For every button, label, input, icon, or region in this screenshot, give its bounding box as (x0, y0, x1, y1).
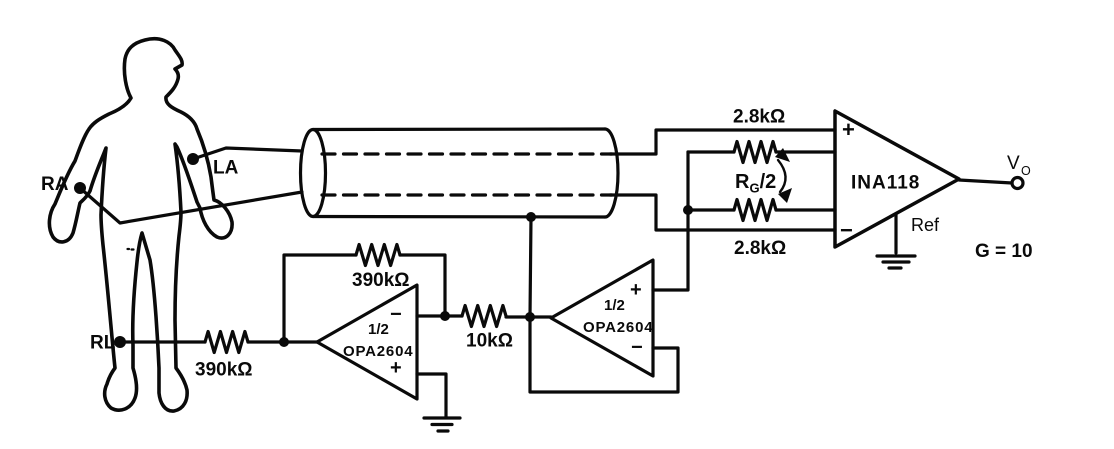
wire 390k to op-amp U1 output node (248, 340, 317, 343)
svg-text:390kΩ: 390kΩ (195, 360, 253, 381)
wire top conductor exit (610, 130, 835, 154)
svg-text:V: V (1007, 153, 1020, 174)
wire INA118 Ref pin to ground (894, 214, 897, 253)
wire 10k right lead to U2 output (506, 315, 551, 318)
wire bottom conductor exit (610, 195, 835, 230)
electrode dot LA (187, 153, 199, 165)
resistor 390k feedback (356, 245, 400, 266)
navel mark (128, 248, 134, 251)
output terminal Vo (1012, 178, 1023, 189)
wire feedback right vertical to U1 inverting input (400, 255, 445, 316)
wire INA118 output (959, 180, 1012, 183)
svg-text:G = 10: G = 10 (975, 241, 1033, 262)
resistor RG/2 upper (734, 142, 776, 163)
wire U1 non-inverting input to ground (417, 374, 446, 417)
resistor 10k (462, 306, 506, 327)
wire RG lower leads (688, 208, 734, 211)
op-amp U1 (1/2 OPA2604, right-leg drive, points left) (317, 285, 417, 399)
svg-text:+: + (390, 357, 402, 379)
wire RL to 390k resistor (120, 340, 205, 343)
svg-text:−: − (390, 304, 402, 326)
svg-text:OPA2604: OPA2604 (343, 343, 413, 360)
svg-text:2.8kΩ: 2.8kΩ (733, 107, 785, 128)
junction node U1 inverting input (440, 311, 450, 321)
junction node U2 output (525, 312, 535, 322)
cable inner conductor bottom (dashed) (322, 193, 612, 196)
junction node U1 output (279, 337, 289, 347)
wire RA electrode to cable (80, 188, 302, 223)
wire 10k left lead (445, 314, 462, 317)
svg-text:+: + (842, 117, 855, 142)
resistor 390k (right-leg drive series) (205, 332, 248, 353)
junction node cable shield (526, 212, 536, 222)
svg-text:RA: RA (41, 174, 69, 195)
wire U2 non-inverting input up to RG midpoint (653, 152, 688, 290)
arrowhead bottom of RG adjust arrow (778, 188, 792, 203)
arrowhead top of RG adjust arrow (775, 148, 790, 162)
wire U2 inverting input feedback loop (530, 317, 678, 392)
adjustable arrow across RG/2 (778, 160, 786, 192)
svg-text:OPA2604: OPA2604 (583, 319, 653, 336)
svg-text:1/2: 1/2 (604, 297, 625, 314)
junction node RG midpoint (683, 205, 693, 215)
svg-text:Ref: Ref (911, 215, 940, 235)
wire shield drive vertical (530, 217, 531, 317)
wire LA electrode to cable (193, 148, 302, 159)
svg-text:10kΩ: 10kΩ (466, 331, 513, 352)
svg-text:−: − (840, 218, 853, 243)
svg-text:1/2: 1/2 (368, 321, 389, 338)
svg-text:INA118: INA118 (851, 173, 920, 194)
ground (Ref) (877, 254, 915, 257)
svg-text:+: + (630, 279, 642, 301)
wire RG upper leads (688, 150, 734, 153)
svg-text:−: − (631, 337, 643, 359)
resistor RG/2 lower (734, 200, 776, 221)
op-amp U2 (1/2 OPA2604 buffer, points left) (551, 260, 653, 376)
svg-text:O: O (1021, 164, 1031, 178)
svg-text:390kΩ: 390kΩ (352, 270, 410, 291)
electrode dot RA (74, 182, 86, 194)
svg-text:2.8kΩ: 2.8kΩ (734, 238, 786, 259)
op-amp U3 INA118 (835, 111, 959, 247)
svg-text:LA: LA (213, 158, 239, 179)
cable inner conductor top (dashed) (322, 152, 612, 155)
wire U1 inverting input (417, 314, 445, 317)
svg-text:RL: RL (90, 333, 116, 354)
shielded cable cylinder (301, 130, 326, 217)
body figure (patient outline) (49, 39, 232, 411)
wire feedback left vertical (284, 255, 356, 342)
electrode dot RL (114, 336, 126, 348)
ground (U1 non-inverting input) (424, 416, 460, 419)
